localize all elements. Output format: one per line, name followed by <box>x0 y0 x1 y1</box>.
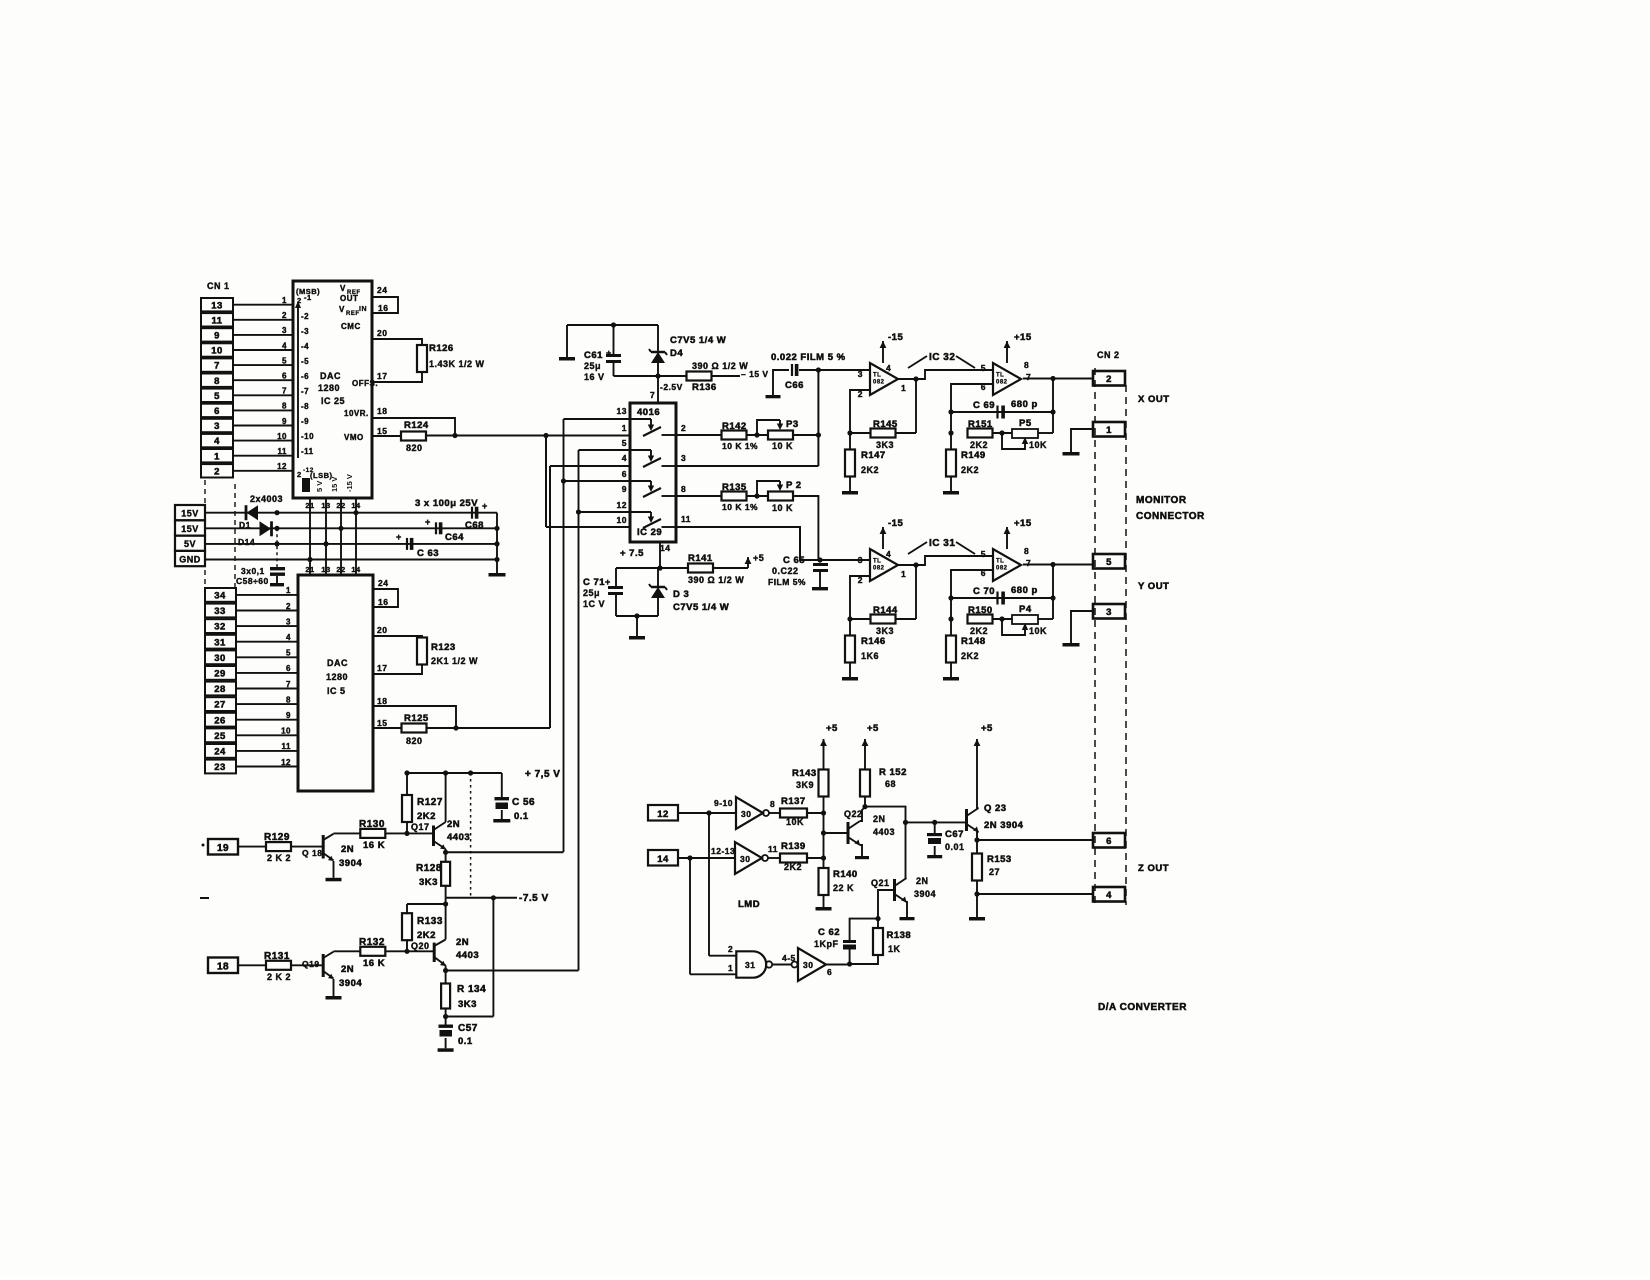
svg-text:22: 22 <box>336 501 345 510</box>
svg-text:D14: D14 <box>238 537 255 547</box>
svg-text:820: 820 <box>406 736 423 746</box>
svg-text:+5: +5 <box>826 723 838 734</box>
svg-text:10 K 1%: 10 K 1% <box>722 502 758 512</box>
svg-text:2N: 2N <box>873 814 886 824</box>
svg-text:+ 7,5 V: + 7,5 V <box>525 769 560 780</box>
svg-text:15V: 15V <box>181 524 199 534</box>
svg-text:– 15 V: – 15 V <box>741 369 769 379</box>
svg-text:1: 1 <box>901 569 906 579</box>
svg-text:IC 5: IC 5 <box>327 686 346 696</box>
svg-text:2 K 2: 2 K 2 <box>267 972 291 982</box>
svg-text:2K2: 2K2 <box>861 465 879 475</box>
svg-text:1: 1 <box>214 451 220 462</box>
svg-text:13: 13 <box>321 501 330 510</box>
svg-text:+5: +5 <box>867 723 879 734</box>
svg-text:16: 16 <box>378 597 388 607</box>
svg-text:680 p: 680 p <box>1011 585 1038 596</box>
svg-text:6: 6 <box>622 469 627 479</box>
svg-text:1K: 1K <box>888 944 901 954</box>
svg-text:R137: R137 <box>781 796 806 807</box>
svg-text:R141: R141 <box>688 553 713 564</box>
svg-text:IC 25: IC 25 <box>321 396 345 406</box>
svg-text:4: 4 <box>286 633 291 642</box>
svg-text:10K: 10K <box>1029 626 1047 636</box>
svg-text:27: 27 <box>214 700 226 711</box>
svg-text:C67: C67 <box>945 829 964 840</box>
svg-text:16: 16 <box>378 303 388 313</box>
svg-text:25μ: 25μ <box>583 588 600 598</box>
svg-text:3x0,1: 3x0,1 <box>241 566 265 576</box>
svg-text:1280: 1280 <box>326 672 348 682</box>
svg-text:C58÷60: C58÷60 <box>236 576 269 586</box>
svg-text:0.1: 0.1 <box>458 1036 473 1047</box>
svg-text:C66: C66 <box>785 380 804 391</box>
svg-text:4: 4 <box>622 453 627 463</box>
svg-text:1K6: 1K6 <box>861 651 879 661</box>
svg-text:-15: -15 <box>888 518 903 529</box>
svg-text:25μ: 25μ <box>584 361 601 371</box>
svg-text:Q21: Q21 <box>871 878 890 888</box>
svg-text:-9: -9 <box>301 417 309 426</box>
svg-text:6: 6 <box>827 967 832 977</box>
svg-text:3K3: 3K3 <box>419 877 438 888</box>
svg-text:2 K 2: 2 K 2 <box>267 853 291 863</box>
svg-text:3: 3 <box>681 453 686 463</box>
svg-text:Q 18: Q 18 <box>302 848 322 858</box>
svg-text:+: + <box>425 517 431 527</box>
svg-text:IC 29: IC 29 <box>637 527 662 538</box>
svg-text:8: 8 <box>282 402 287 411</box>
svg-text:R148: R148 <box>961 636 986 647</box>
svg-text:8: 8 <box>286 695 291 704</box>
svg-text:+: + <box>396 532 402 542</box>
svg-text:18: 18 <box>217 962 229 973</box>
svg-text:3: 3 <box>282 326 287 335</box>
svg-text:Z OUT: Z OUT <box>1138 863 1169 874</box>
svg-text:2N: 2N <box>341 844 354 855</box>
svg-text:5: 5 <box>1106 557 1112 568</box>
svg-text:33: 33 <box>214 606 226 617</box>
svg-text:R 134: R 134 <box>457 984 486 995</box>
svg-text:390 Ω 1/2 W: 390 Ω 1/2 W <box>688 575 744 585</box>
svg-text:11: 11 <box>211 315 222 326</box>
svg-text:5: 5 <box>981 549 986 559</box>
svg-text:2N: 2N <box>456 937 469 948</box>
svg-text:2N: 2N <box>447 819 460 830</box>
svg-text:11: 11 <box>768 844 778 854</box>
svg-text:18: 18 <box>377 696 387 706</box>
svg-text:R136: R136 <box>692 382 717 393</box>
svg-text:20: 20 <box>377 328 387 338</box>
svg-text:4016: 4016 <box>637 407 660 418</box>
svg-text:TL: TL <box>873 558 881 564</box>
svg-text:+: + <box>605 577 611 587</box>
svg-text:-15 V: -15 V <box>345 474 354 492</box>
svg-text:31: 31 <box>745 960 755 970</box>
svg-text:3K3: 3K3 <box>458 999 477 1010</box>
svg-text:23: 23 <box>214 762 226 773</box>
svg-text:R129: R129 <box>264 832 290 843</box>
svg-text:C 65: C 65 <box>783 555 805 566</box>
svg-text:R142: R142 <box>722 421 747 432</box>
svg-text:C 56: C 56 <box>512 797 535 808</box>
svg-text:27: 27 <box>989 867 1000 877</box>
svg-text:8: 8 <box>770 799 775 809</box>
svg-text:Q17: Q17 <box>411 822 430 832</box>
svg-text:VMO: VMO <box>344 433 364 442</box>
svg-text:15: 15 <box>377 426 387 436</box>
svg-text:5: 5 <box>622 438 627 448</box>
svg-text:22: 22 <box>336 565 345 574</box>
svg-text:24: 24 <box>377 285 387 295</box>
svg-text:2K2: 2K2 <box>961 651 979 661</box>
svg-text:14: 14 <box>351 501 361 510</box>
svg-text:17: 17 <box>377 371 387 381</box>
svg-text:C 63: C 63 <box>417 548 439 559</box>
svg-text:2: 2 <box>1106 374 1112 385</box>
svg-text:1: 1 <box>728 963 733 973</box>
svg-text:6: 6 <box>1106 836 1112 847</box>
svg-text:IC 31: IC 31 <box>929 538 955 549</box>
svg-text:CMC: CMC <box>341 322 361 331</box>
svg-text:17: 17 <box>377 663 387 673</box>
svg-text:P3: P3 <box>786 419 799 430</box>
svg-text:R145: R145 <box>873 419 898 430</box>
svg-text:21: 21 <box>305 565 314 574</box>
svg-text:820: 820 <box>406 443 423 453</box>
svg-text:P5: P5 <box>1019 418 1032 429</box>
svg-text:1.43K 1/2 W: 1.43K 1/2 W <box>429 359 485 369</box>
svg-text:D 3: D 3 <box>673 589 689 600</box>
svg-text:082: 082 <box>996 565 1008 571</box>
svg-text:12: 12 <box>657 809 669 820</box>
svg-text:3: 3 <box>214 421 220 432</box>
svg-text:7: 7 <box>1026 558 1031 568</box>
svg-text:Q19: Q19 <box>302 959 320 969</box>
svg-text:X OUT: X OUT <box>1138 394 1170 405</box>
svg-text:R123: R123 <box>431 642 456 653</box>
svg-text:-8: -8 <box>301 402 309 411</box>
svg-text:R147: R147 <box>861 450 886 461</box>
svg-text:10: 10 <box>211 346 223 357</box>
svg-text:2x4003: 2x4003 <box>250 494 283 504</box>
svg-text:2: 2 <box>286 602 291 611</box>
svg-text:390 Ω 1/2 W: 390 Ω 1/2 W <box>692 361 748 371</box>
svg-text:10: 10 <box>277 432 287 441</box>
svg-text:082: 082 <box>873 565 885 571</box>
svg-text:C68: C68 <box>465 520 484 531</box>
svg-text:0.022 FILM 5 %: 0.022 FILM 5 % <box>771 352 846 363</box>
svg-text:2: 2 <box>282 311 287 320</box>
svg-text:2N 3904: 2N 3904 <box>984 820 1024 831</box>
svg-text:10K: 10K <box>786 817 804 827</box>
svg-text:7: 7 <box>286 680 291 689</box>
svg-text:R149: R149 <box>961 450 986 461</box>
svg-text:3: 3 <box>286 617 291 626</box>
svg-text:R126: R126 <box>429 343 454 354</box>
svg-text:TL: TL <box>996 372 1004 378</box>
svg-text:P 2: P 2 <box>786 480 802 491</box>
svg-text:GND: GND <box>179 554 201 564</box>
svg-text:34: 34 <box>214 591 226 602</box>
svg-text:2N: 2N <box>916 876 929 886</box>
svg-text:4: 4 <box>886 363 891 373</box>
svg-text:19: 19 <box>217 843 229 854</box>
svg-text:OUT: OUT <box>340 294 358 303</box>
svg-text:15V: 15V <box>181 509 199 519</box>
svg-text:13: 13 <box>211 300 223 311</box>
svg-text:1: 1 <box>282 296 287 305</box>
svg-text:-1: -1 <box>304 293 312 302</box>
svg-text:16 K: 16 K <box>363 840 385 851</box>
svg-text:+ 7.5: + 7.5 <box>620 548 644 559</box>
svg-text:-10: -10 <box>301 432 314 441</box>
svg-text:082: 082 <box>873 379 885 385</box>
svg-text:4403: 4403 <box>447 832 470 843</box>
svg-text:9: 9 <box>286 711 291 720</box>
svg-text:68: 68 <box>885 779 896 789</box>
svg-text:12: 12 <box>617 500 627 510</box>
svg-text:3 x 100μ 25V: 3 x 100μ 25V <box>415 498 478 509</box>
svg-text:30: 30 <box>803 960 813 970</box>
svg-text:29: 29 <box>214 669 226 680</box>
svg-text:5V: 5V <box>184 539 196 549</box>
svg-text:7: 7 <box>1026 372 1031 382</box>
svg-text:10 K: 10 K <box>772 441 793 451</box>
svg-text:4: 4 <box>282 341 287 350</box>
svg-text:15: 15 <box>377 718 387 728</box>
svg-text:R128: R128 <box>416 863 442 874</box>
svg-text:3: 3 <box>1106 607 1112 618</box>
svg-text:2N: 2N <box>341 964 354 975</box>
svg-text:2K2: 2K2 <box>970 626 988 636</box>
svg-text:R133: R133 <box>417 916 443 927</box>
svg-text:7: 7 <box>214 361 220 372</box>
svg-text:+15: +15 <box>1014 518 1032 529</box>
svg-text:4: 4 <box>214 436 220 447</box>
svg-text:13: 13 <box>617 406 627 416</box>
svg-text:2K2: 2K2 <box>417 930 436 941</box>
svg-text:2: 2 <box>681 423 686 433</box>
svg-text:11: 11 <box>278 447 288 456</box>
svg-text:4: 4 <box>1106 890 1112 901</box>
svg-text:2K2: 2K2 <box>784 862 802 872</box>
svg-text:1280: 1280 <box>318 383 340 393</box>
svg-text:10VR.: 10VR. <box>344 409 369 418</box>
svg-text:10 K: 10 K <box>772 503 793 513</box>
svg-text:-2.5V: -2.5V <box>660 382 683 392</box>
svg-text:7: 7 <box>650 390 655 400</box>
svg-text:31: 31 <box>214 637 226 648</box>
svg-text:3K3: 3K3 <box>876 440 894 450</box>
svg-text:12: 12 <box>281 758 291 767</box>
svg-text:CN 1: CN 1 <box>207 281 230 291</box>
svg-text:R150: R150 <box>968 605 993 616</box>
svg-text:MONITOR: MONITOR <box>1136 495 1187 506</box>
svg-text:25: 25 <box>214 731 226 742</box>
svg-text:1: 1 <box>1106 425 1112 436</box>
svg-text:26: 26 <box>214 715 226 726</box>
svg-text:1: 1 <box>622 423 627 433</box>
svg-text:8: 8 <box>214 376 220 387</box>
svg-text:4403: 4403 <box>873 827 895 837</box>
svg-text:-4: -4 <box>301 342 309 351</box>
svg-text:Q20: Q20 <box>411 941 430 951</box>
svg-text:5: 5 <box>981 363 986 373</box>
svg-text:3904: 3904 <box>339 858 362 869</box>
svg-text:30: 30 <box>741 809 751 819</box>
svg-text:D4: D4 <box>670 348 683 359</box>
svg-text:1KpF: 1KpF <box>814 939 839 949</box>
svg-text:R130: R130 <box>359 819 385 830</box>
svg-text:R132: R132 <box>359 937 385 948</box>
svg-text:3904: 3904 <box>914 889 936 899</box>
svg-text:6: 6 <box>282 372 287 381</box>
svg-text:C64: C64 <box>445 532 464 543</box>
svg-text:C 62: C 62 <box>818 927 840 938</box>
svg-text:32: 32 <box>214 622 226 633</box>
svg-text:30: 30 <box>214 653 226 664</box>
svg-text:6: 6 <box>286 664 291 673</box>
svg-text:R153: R153 <box>987 854 1012 865</box>
svg-text:0.01: 0.01 <box>945 842 965 852</box>
svg-text:OFFS.: OFFS. <box>352 379 378 388</box>
svg-text:R131: R131 <box>264 951 290 962</box>
svg-text:2: 2 <box>728 944 733 954</box>
svg-text:FILM 5%: FILM 5% <box>768 577 806 587</box>
svg-text:+5: +5 <box>981 723 993 734</box>
svg-text:D/A CONVERTER: D/A CONVERTER <box>1098 1002 1187 1013</box>
svg-text:9: 9 <box>214 331 220 342</box>
svg-text:IC 32: IC 32 <box>929 352 955 363</box>
svg-text:21: 21 <box>305 501 314 510</box>
svg-text:Q22: Q22 <box>844 809 863 819</box>
svg-text:R138: R138 <box>887 930 912 941</box>
svg-text:5 V: 5 V <box>315 481 324 492</box>
svg-text:+5: +5 <box>753 553 764 563</box>
svg-text:C57: C57 <box>458 1023 478 1034</box>
svg-text:5: 5 <box>282 356 287 365</box>
svg-text:4403: 4403 <box>456 950 479 961</box>
svg-text:6: 6 <box>214 406 220 417</box>
svg-text:13: 13 <box>321 565 330 574</box>
svg-text:LMD: LMD <box>738 899 760 910</box>
svg-text:1C V: 1C V <box>583 599 605 609</box>
svg-text:-11: -11 <box>301 447 314 456</box>
svg-text:24: 24 <box>378 578 388 588</box>
svg-text:10K: 10K <box>1029 440 1047 450</box>
svg-text:R124: R124 <box>404 420 429 431</box>
svg-text:P4: P4 <box>1019 604 1032 615</box>
svg-text:10: 10 <box>281 727 291 736</box>
svg-text:IN: IN <box>359 306 367 313</box>
svg-text:R127: R127 <box>417 797 443 808</box>
svg-text:0.1: 0.1 <box>514 811 529 822</box>
svg-text:2K2: 2K2 <box>961 465 979 475</box>
svg-text:-15: -15 <box>888 332 903 343</box>
svg-text:7: 7 <box>282 387 287 396</box>
svg-text:R 152: R 152 <box>879 767 907 778</box>
svg-text:8: 8 <box>1024 546 1029 556</box>
svg-text:14: 14 <box>657 854 669 865</box>
svg-text:8: 8 <box>1024 360 1029 370</box>
svg-text:3K3: 3K3 <box>876 626 894 636</box>
svg-text:D1: D1 <box>239 520 251 530</box>
svg-text:10: 10 <box>617 515 627 525</box>
svg-text:22 K: 22 K <box>833 883 854 893</box>
svg-text:-7.5 V: -7.5 V <box>519 893 549 904</box>
svg-text:16 K: 16 K <box>363 958 385 969</box>
svg-text:3K9: 3K9 <box>796 780 814 790</box>
svg-text:-3: -3 <box>301 327 309 336</box>
svg-text:R144: R144 <box>873 605 898 616</box>
svg-text:9: 9 <box>622 484 627 494</box>
svg-text:11: 11 <box>681 514 691 524</box>
svg-text:9: 9 <box>282 417 287 426</box>
svg-text:+15: +15 <box>1014 332 1032 343</box>
svg-text:-2: -2 <box>301 312 309 321</box>
svg-text:3904: 3904 <box>339 978 362 989</box>
svg-text:CONNECTOR: CONNECTOR <box>1136 511 1205 522</box>
svg-text:5: 5 <box>286 649 291 658</box>
svg-text:5: 5 <box>214 391 220 402</box>
svg-text:-7: -7 <box>301 387 309 396</box>
svg-text:15 V: 15 V <box>330 477 339 492</box>
svg-text:CN 2: CN 2 <box>1097 350 1120 360</box>
svg-text:-5: -5 <box>301 357 309 366</box>
svg-text:C 71: C 71 <box>583 577 605 588</box>
svg-text:0.C22: 0.C22 <box>772 566 799 576</box>
svg-text:8: 8 <box>681 484 686 494</box>
svg-text:2: 2 <box>297 470 302 479</box>
svg-text:16 V: 16 V <box>584 372 605 382</box>
svg-text:R143: R143 <box>792 768 817 779</box>
svg-text:V: V <box>339 305 345 314</box>
svg-text:4: 4 <box>886 549 891 559</box>
svg-text:3: 3 <box>858 555 863 565</box>
svg-text:+: + <box>482 501 488 511</box>
svg-text:C 69: C 69 <box>973 400 995 411</box>
svg-text:R139: R139 <box>781 841 806 852</box>
svg-text:R135: R135 <box>722 482 747 493</box>
svg-text:10 K 1%: 10 K 1% <box>722 441 758 451</box>
svg-text:9-10: 9-10 <box>714 798 733 808</box>
svg-text:V: V <box>340 284 346 293</box>
svg-text:R125: R125 <box>404 713 429 724</box>
svg-text:1: 1 <box>901 383 906 393</box>
svg-text:-6: -6 <box>301 372 309 381</box>
svg-text:12-13: 12-13 <box>711 846 735 856</box>
svg-text:1: 1 <box>286 586 291 595</box>
svg-text:DAC: DAC <box>327 658 348 668</box>
svg-text:2K2: 2K2 <box>970 440 988 450</box>
svg-text:C7V5 1/4 W: C7V5 1/4 W <box>670 335 726 346</box>
svg-text:C7V5 1/4 W: C7V5 1/4 W <box>673 602 729 613</box>
svg-text:Y OUT: Y OUT <box>1138 581 1169 592</box>
svg-text:30: 30 <box>740 854 750 864</box>
svg-text:14: 14 <box>351 565 361 574</box>
svg-text:R140: R140 <box>833 869 858 880</box>
svg-text:C61: C61 <box>584 350 603 361</box>
svg-text:2K2: 2K2 <box>417 811 436 822</box>
svg-text:DAC: DAC <box>320 371 341 381</box>
svg-text:680 p: 680 p <box>1011 399 1038 410</box>
svg-text:TL: TL <box>873 372 881 378</box>
svg-text:R146: R146 <box>861 636 886 647</box>
svg-text:20: 20 <box>377 625 387 635</box>
svg-text:18: 18 <box>377 406 387 416</box>
svg-text:082: 082 <box>996 379 1008 385</box>
